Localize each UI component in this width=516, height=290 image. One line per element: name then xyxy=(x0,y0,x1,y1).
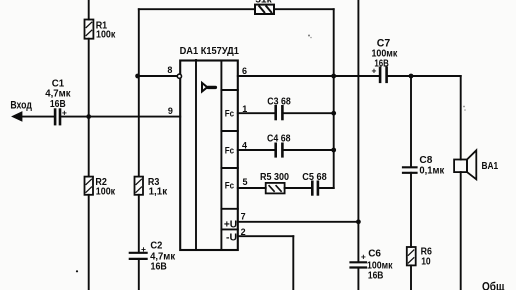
svg-text:100к: 100к xyxy=(96,185,116,197)
svg-text:16В: 16В xyxy=(151,260,168,272)
svg-text:+U: +U xyxy=(224,220,237,231)
svg-text:-U: -U xyxy=(226,233,237,244)
svg-text:BA1: BA1 xyxy=(482,160,499,172)
svg-text:Вход: Вход xyxy=(10,100,32,112)
svg-text:DA1 К157УД1: DA1 К157УД1 xyxy=(180,45,239,57)
svg-text:8: 8 xyxy=(167,65,172,75)
svg-text:10: 10 xyxy=(421,256,431,268)
svg-text:Fc: Fc xyxy=(225,146,234,157)
svg-text:C4 68: C4 68 xyxy=(267,133,291,145)
svg-text:+: + xyxy=(141,244,146,254)
svg-text:16В: 16В xyxy=(368,269,384,281)
svg-text:C6: C6 xyxy=(368,248,381,260)
svg-text:6: 6 xyxy=(242,66,247,76)
svg-text:0,1мк: 0,1мк xyxy=(419,165,444,177)
svg-text:9: 9 xyxy=(168,106,173,116)
svg-text:Общ: Общ xyxy=(482,282,505,290)
svg-text:C3 68: C3 68 xyxy=(267,96,291,108)
svg-text:+: + xyxy=(361,251,366,261)
svg-text:7: 7 xyxy=(241,211,246,221)
svg-text:C2: C2 xyxy=(150,239,162,251)
svg-text:Fc: Fc xyxy=(225,181,234,192)
svg-text:4: 4 xyxy=(242,140,247,150)
svg-text:+: + xyxy=(62,107,67,117)
svg-text:1: 1 xyxy=(242,104,247,114)
svg-text:R5 300: R5 300 xyxy=(260,171,289,183)
svg-text:100к: 100к xyxy=(96,29,116,41)
svg-text:51к: 51к xyxy=(255,0,272,5)
svg-text:C5 68: C5 68 xyxy=(302,171,327,183)
svg-text:16В: 16В xyxy=(374,58,389,70)
svg-text:5: 5 xyxy=(243,177,248,187)
svg-text:1,1к: 1,1к xyxy=(149,185,168,197)
svg-text:2: 2 xyxy=(241,227,246,237)
svg-text:+: + xyxy=(372,66,377,76)
svg-text:Fc: Fc xyxy=(225,109,234,120)
